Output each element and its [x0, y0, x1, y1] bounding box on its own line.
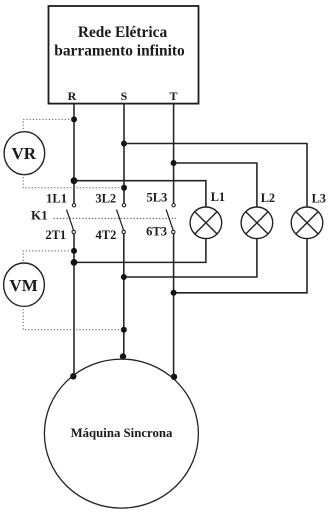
machine terminal junction R	[70, 373, 76, 379]
junction R to VM	[71, 248, 77, 254]
svg-text:L1: L1	[211, 190, 225, 204]
svg-text:L3: L3	[312, 191, 326, 205]
svg-text:VM: VM	[9, 276, 37, 295]
svg-text:5L3: 5L3	[146, 191, 167, 205]
svg-text:K1: K1	[31, 208, 48, 223]
svg-text:barramento infinito: barramento infinito	[54, 42, 185, 59]
lamp L1	[190, 207, 222, 239]
source box Rede Elétrica barramento infinito	[49, 6, 199, 104]
junction S to VR	[121, 185, 127, 191]
wire R to lamp L1 top	[74, 181, 206, 207]
VM dashed lead bottom (to S)	[23, 306, 124, 330]
wire phase R vertical (box to contact 1L1)	[73, 104, 75, 203]
wire S to lamp L3 top	[124, 144, 307, 208]
wire phase S vertical (box to contact 3L2)	[123, 104, 125, 203]
wire lamp L2 bottom to S	[124, 239, 257, 277]
synchronous machine Máquina Sincrona	[44, 359, 198, 508]
contact K1 pole 2 (3L2-4T2)	[117, 204, 126, 234]
svg-text:4T2: 4T2	[96, 228, 117, 242]
junction L1 bottom on R	[71, 259, 78, 266]
wire lamp L1 bottom to R	[74, 239, 206, 263]
junction L3 bottom on T	[171, 290, 177, 296]
contactor K1 linkage (dashed)	[54, 217, 177, 219]
machine terminal junction S	[120, 353, 126, 359]
svg-text:3L2: 3L2	[95, 192, 116, 206]
svg-text:2T1: 2T1	[45, 228, 66, 242]
VR dashed lead bottom (to S)	[23, 174, 124, 188]
VM dashed lead top (to R)	[23, 251, 74, 264]
svg-text:Máquina Sincrona: Máquina Sincrona	[71, 426, 173, 440]
wire T to lamp L2 top	[174, 163, 257, 207]
svg-text:Rede Elétrica: Rede Elétrica	[78, 24, 168, 41]
VR dashed lead top (to R)	[23, 119, 74, 132]
wire phase T vertical (box to contact 5L3)	[173, 104, 175, 203]
svg-text:1L1: 1L1	[46, 192, 67, 206]
junction R to VR	[71, 116, 77, 122]
svg-text:6T3: 6T3	[146, 225, 167, 239]
wire machine side T vertical	[173, 234, 175, 377]
wire machine side S vertical	[123, 234, 125, 357]
lamp L2	[241, 207, 273, 239]
voltmeter VM	[4, 263, 45, 306]
wire machine side R vertical	[73, 234, 75, 377]
junction T to lamp L2	[171, 160, 177, 166]
contact K1 pole 1 (1L1-2T1)	[67, 204, 76, 234]
contact K1 pole 3 (5L3-6T3)	[166, 204, 175, 234]
svg-text:L2: L2	[261, 191, 275, 205]
machine terminal junction T	[171, 374, 177, 380]
svg-text:S: S	[121, 89, 128, 103]
junction S to VM	[121, 327, 127, 333]
wire lamp L3 bottom to T	[174, 239, 307, 293]
lamp L3	[291, 207, 323, 239]
svg-text:R: R	[68, 89, 77, 103]
junction S to lamp L3	[121, 141, 127, 147]
svg-text:T: T	[169, 89, 177, 103]
junction L2 bottom on S	[121, 274, 127, 280]
svg-text:VR: VR	[12, 144, 37, 163]
voltmeter VR	[4, 132, 45, 175]
junction R to lamp L1	[71, 177, 78, 184]
